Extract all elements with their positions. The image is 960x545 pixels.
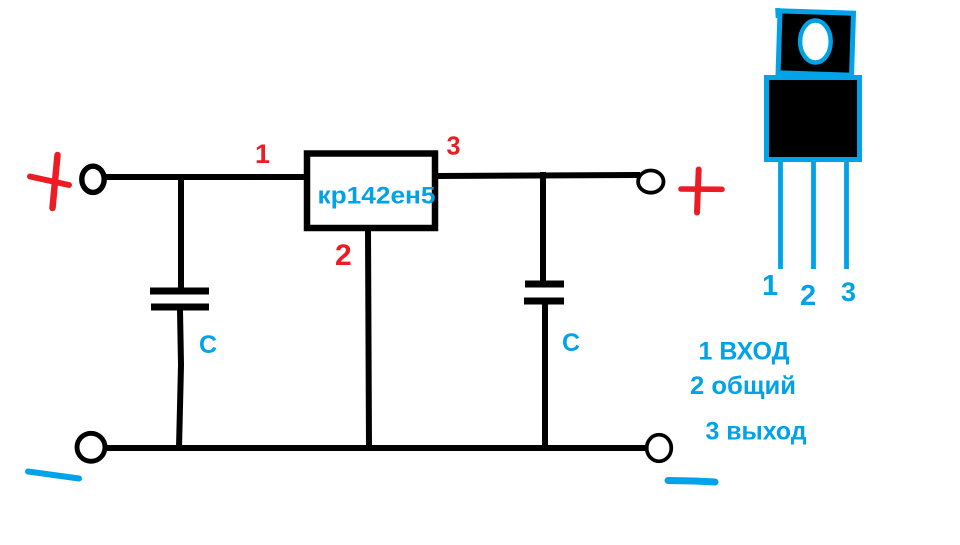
svg-text:C: C bbox=[199, 331, 217, 359]
svg-text:1: 1 bbox=[762, 270, 778, 302]
svg-text:3 выход: 3 выход bbox=[706, 418, 807, 446]
svg-text:C: C bbox=[562, 329, 580, 357]
svg-text:кр142ен5: кр142ен5 bbox=[318, 183, 436, 210]
svg-text:1 ВХОД: 1 ВХОД bbox=[699, 338, 790, 366]
svg-text:3: 3 bbox=[447, 131, 461, 161]
svg-text:3: 3 bbox=[841, 277, 856, 307]
svg-text:1: 1 bbox=[255, 139, 270, 169]
svg-text:2: 2 bbox=[335, 239, 352, 272]
svg-text:2 общий: 2 общий bbox=[690, 372, 796, 400]
svg-text:2: 2 bbox=[800, 280, 816, 312]
